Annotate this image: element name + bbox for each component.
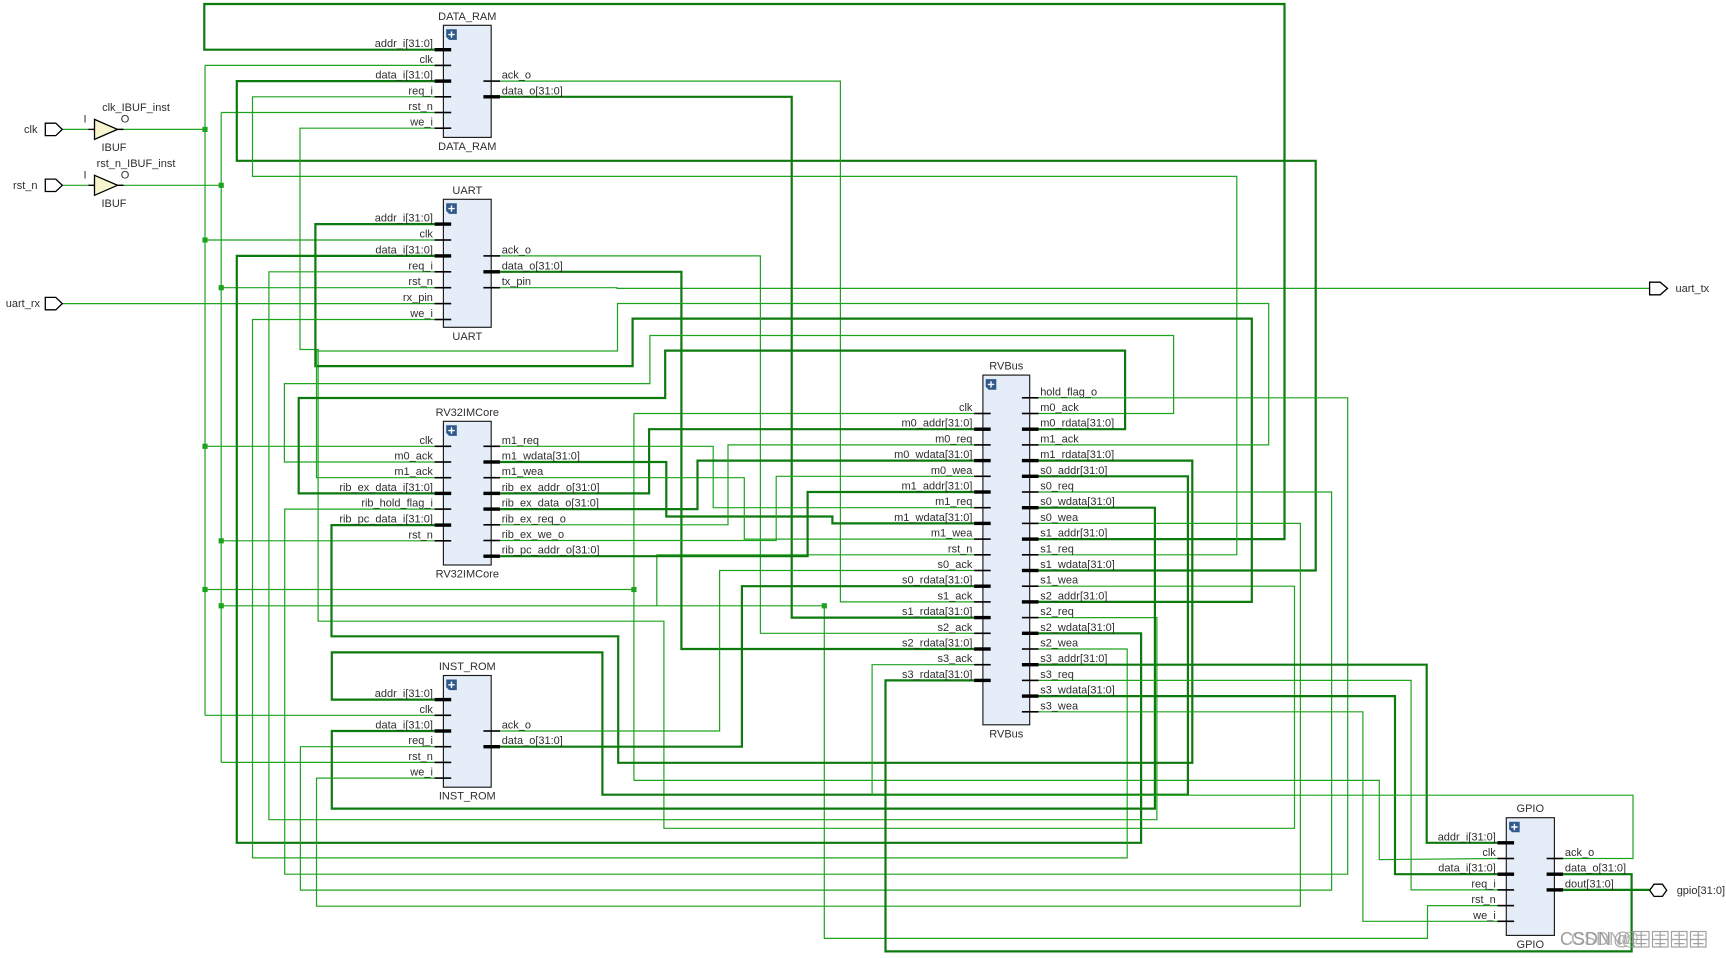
svg-text:rib_ex_addr_o[31:0]: rib_ex_addr_o[31:0] (502, 482, 600, 494)
pin RVBus.m0_wdata[31:0] (974, 459, 991, 462)
pin INST_ROM.addr_i[31:0] (435, 698, 452, 701)
svg-text:O: O (121, 113, 130, 125)
pin DATA_RAM.addr_i[31:0] (435, 48, 452, 51)
svg-text:tx_pin: tx_pin (502, 276, 531, 288)
pin RVBus.m1_wea (974, 538, 991, 540)
svg-text:rst_n: rst_n (408, 276, 432, 288)
pin RV32IMCore.clk (435, 446, 452, 448)
svg-text:data_o[31:0]: data_o[31:0] (1565, 863, 1626, 875)
svg-text:s2_ack: s2_ack (938, 622, 973, 634)
svg-text:data_o[31:0]: data_o[31:0] (502, 260, 563, 272)
wire net m1_wea (core to RVBus) (500, 478, 974, 539)
watermark CJK glyph strokes (1634, 932, 1707, 948)
junction dot at (633.9,589.5) (631, 587, 636, 592)
svg-text:rst_n: rst_n (408, 751, 432, 763)
wire clk port to IBUF input (62, 128, 89, 130)
pin RV32IMCore.m1_wdata[31:0] (483, 460, 500, 463)
wire net m1_rdata (RVBus to core rib_pc_data_i) (332, 461, 1193, 763)
pin RVBus.s0_ack (974, 570, 991, 572)
pin RVBus.s2_wea (1022, 648, 1039, 650)
wire net m0_ack (RVBus to core) (284, 336, 1173, 463)
pin RVBus.m1_req (974, 507, 991, 509)
pin GPIO.rst_n (1498, 905, 1515, 907)
buffer clk_IBUF_inst (IBUF) (89, 119, 124, 139)
svg-text:s0_ack: s0_ack (938, 559, 973, 571)
svg-text:m0_addr[31:0]: m0_addr[31:0] (901, 418, 972, 430)
svg-text:rib_pc_data_i[31:0]: rib_pc_data_i[31:0] (339, 514, 433, 526)
svg-text:I: I (83, 113, 86, 125)
pin RV32IMCore.rst_n (435, 540, 452, 542)
wire rst_n trunk vertical (220, 113, 222, 763)
wire net s2_addr (UART addr_i) (315, 224, 1251, 602)
pin RV32IMCore.m1_req (483, 446, 500, 448)
wire net s2_wea (UART we_i) (253, 320, 1128, 858)
svg-text:uart_tx: uart_tx (1676, 283, 1710, 295)
svg-text:s1_wdata[31:0]: s1_wdata[31:0] (1040, 559, 1115, 571)
svg-text:s1_ack: s1_ack (938, 590, 973, 602)
module block RVBus (983, 375, 1030, 725)
pin RVBus.m1_rdata[31:0] (1022, 459, 1039, 462)
pin RVBus.clk (974, 413, 991, 415)
svg-text:addr_i[31:0]: addr_i[31:0] (375, 38, 433, 50)
pin DATA_RAM.req_i (435, 96, 452, 98)
svg-text:m1_addr[31:0]: m1_addr[31:0] (901, 481, 972, 493)
svg-text:rst_n: rst_n (408, 529, 432, 541)
pin RVBus.m1_addr[31:0] (974, 490, 991, 493)
pin RVBus.s1_req (1022, 554, 1039, 556)
pin RV32IMCore.rib_ex_addr_o[31:0] (483, 492, 500, 495)
wire net s1_rdata (DATA_RAM data_o) (500, 97, 974, 618)
wire net s0_wea (RVBus to INST_ROM we_i) (317, 523, 1301, 906)
junction dot at (205,129.4) (202, 127, 207, 132)
wire net m1_req (core to RVBus) (500, 446, 974, 507)
svg-text:s3_wdata[31:0]: s3_wdata[31:0] (1040, 685, 1115, 697)
wire net s3_wdata (RVBus to GPIO data_i) (1039, 696, 1498, 874)
pin UART.tx_pin (483, 287, 500, 289)
svg-text:addr_i[31:0]: addr_i[31:0] (375, 688, 433, 700)
svg-text:s1_wea: s1_wea (1040, 575, 1079, 587)
wire clk branch rail (205, 589, 634, 591)
wire net m1_addr (core rib_pc_addr_o to RVBus) (500, 492, 974, 556)
wire GPIO dout to gpio port (1563, 889, 1650, 891)
wire net s3_req (RVBus to GPIO req_i) (1039, 680, 1498, 890)
pin RVBus.s0_wdata[31:0] (1022, 506, 1039, 509)
svg-text:s3_rdata[31:0]: s3_rdata[31:0] (902, 669, 972, 681)
pin UART.we_i (435, 319, 452, 321)
port rst_n (input) (45, 179, 62, 191)
pin UART.req_i (435, 271, 452, 273)
svg-text:clk: clk (419, 54, 433, 66)
svg-text:we_i: we_i (409, 117, 433, 129)
pin RV32IMCore.rib_ex_data_o[31:0] (483, 507, 500, 510)
wire rst_n riser to RVBus.rst_n (657, 555, 974, 606)
svg-text:s1_req: s1_req (1040, 543, 1074, 555)
svg-text:rx_pin: rx_pin (403, 292, 433, 304)
svg-text:IBUF: IBUF (101, 198, 126, 210)
pin DATA_RAM.ack_o (483, 80, 500, 82)
wire net s1_req (DATA_RAM req_i) (253, 97, 1237, 555)
svg-text:m0_ack: m0_ack (394, 451, 433, 463)
pin INST_ROM.we_i (435, 777, 452, 779)
svg-text:s3_wea: s3_wea (1040, 700, 1079, 712)
svg-text:m1_wea: m1_wea (931, 528, 973, 540)
wire rst_n IBUF output to trunk (118, 184, 222, 186)
wire net s1_wdata (DATA_RAM data_i) (237, 81, 1316, 570)
wire clk to RV32IMCore.clk (205, 445, 435, 447)
svg-text:RV32IMCore: RV32IMCore (436, 569, 499, 581)
wire net m0_req (core rib_ex_req_o to RVBus) (500, 445, 974, 525)
wire net s0_addr (RVBus to INST_ROM addr_i) (332, 476, 1188, 794)
svg-text:clk: clk (1482, 847, 1496, 859)
wire clk to RVBus.clk (634, 413, 974, 415)
svg-text:rst_n: rst_n (408, 101, 432, 113)
pin RV32IMCore.rib_ex_data_i[31:0] (435, 492, 452, 495)
module block DATA_RAM (443, 25, 491, 137)
svg-text:O: O (121, 169, 130, 181)
svg-text:m1_ack: m1_ack (394, 466, 433, 478)
svg-text:s0_rdata[31:0]: s0_rdata[31:0] (902, 575, 972, 587)
pin INST_ROM.clk (435, 715, 452, 717)
pin RVBus.m0_req (974, 444, 991, 446)
svg-text:m0_rdata[31:0]: m0_rdata[31:0] (1040, 418, 1114, 430)
svg-text:addr_i[31:0]: addr_i[31:0] (1438, 831, 1496, 843)
pin INST_ROM.data_i[31:0] (435, 729, 452, 732)
pin RV32IMCore.m1_ack (435, 477, 452, 479)
wire rst_n branch rail (221, 605, 824, 607)
svg-text:ack_o: ack_o (1565, 847, 1594, 859)
pin RVBus.s3_req (1022, 680, 1039, 682)
wire net s0_wdata (RVBus to INST_ROM data_i) (332, 508, 1155, 809)
pin RVBus.s0_rdata[31:0] (974, 585, 991, 588)
pin DATA_RAM.clk (435, 65, 452, 67)
svg-text:gpio[31:0]: gpio[31:0] (1677, 885, 1725, 897)
svg-text:INST_ROM: INST_ROM (439, 661, 496, 673)
svg-text:rib_ex_we_o: rib_ex_we_o (502, 529, 564, 541)
pin RVBus.s2_rdata[31:0] (974, 647, 991, 650)
pin INST_ROM.data_o[31:0] (483, 745, 500, 748)
pin RV32IMCore.rib_ex_req_o (483, 524, 500, 526)
svg-text:rib_ex_data_o[31:0]: rib_ex_data_o[31:0] (502, 498, 599, 510)
pin RVBus.rst_n (974, 554, 991, 556)
pin RVBus.m1_ack (1022, 444, 1039, 446)
svg-text:m1_req: m1_req (502, 435, 539, 447)
wire net s3_addr (RVBus to GPIO addr_i) (1039, 665, 1498, 843)
svg-text:DATA_RAM: DATA_RAM (438, 141, 496, 153)
port gpio[31:0] (inout) (1650, 884, 1667, 896)
svg-text:s2_wea: s2_wea (1040, 638, 1079, 650)
pin RVBus.s3_wea (1022, 711, 1039, 713)
svg-text:s2_req: s2_req (1040, 606, 1074, 618)
svg-text:we_i: we_i (409, 767, 433, 779)
svg-text:m1_wdata[31:0]: m1_wdata[31:0] (894, 512, 972, 524)
svg-text:data_i[31:0]: data_i[31:0] (1438, 863, 1496, 875)
wire rst_n to INST_ROM.rst_n (221, 761, 434, 763)
wire rst_n to UART.rst_n (221, 287, 434, 289)
wire net s2_wdata (UART data_i) (237, 256, 1141, 843)
svg-text:we_i: we_i (1472, 910, 1496, 922)
wire net m1_wdata (core to RVBus) (500, 462, 974, 523)
svg-text:m0_req: m0_req (935, 433, 972, 445)
wire net s0_rdata (INST_ROM data_o to RVBus) (500, 586, 974, 747)
pin UART.rst_n (435, 287, 452, 289)
wire rst_n port to IBUF input (62, 184, 89, 186)
svg-text:clk: clk (419, 704, 433, 716)
wire net s0_req (RVBus to INST_ROM req_i) (300, 492, 1331, 890)
svg-text:UART: UART (452, 185, 482, 197)
pin RVBus.hold_flag_o (1022, 397, 1039, 399)
wire net s3_wea (RVBus to GPIO we_i) (1039, 712, 1498, 922)
svg-text:uart_rx: uart_rx (6, 298, 41, 310)
buffer rst_n_IBUF_inst (IBUF) (89, 175, 124, 195)
svg-text:rib_pc_addr_o[31:0]: rib_pc_addr_o[31:0] (502, 545, 600, 557)
wire net s3_ack (GPIO ack_o to RVBus) (872, 665, 1633, 859)
wire net s2_req (UART req_i) (269, 272, 1157, 820)
svg-text:GPIO: GPIO (1517, 803, 1545, 815)
pin RVBus.s0_wea (1022, 523, 1039, 525)
svg-text:req_i: req_i (408, 260, 432, 272)
wire clk to UART.clk (205, 239, 435, 241)
svg-text:s2_wdata[31:0]: s2_wdata[31:0] (1040, 622, 1115, 634)
module block RV32IMCore (443, 421, 491, 565)
svg-text:I: I (83, 169, 86, 181)
svg-text:GPIO: GPIO (1517, 939, 1545, 951)
pin GPIO.dout[31:0] (1547, 888, 1564, 891)
port uart_rx (input) (45, 297, 62, 309)
svg-text:rib_ex_data_i[31:0]: rib_ex_data_i[31:0] (339, 482, 433, 494)
svg-text:addr_i[31:0]: addr_i[31:0] (375, 213, 433, 225)
svg-text:data_i[31:0]: data_i[31:0] (375, 720, 433, 732)
svg-text:RVBus: RVBus (989, 361, 1024, 373)
wire net m0_addr (core rib_ex_addr_o to RVBus) (500, 429, 974, 493)
pin RV32IMCore.rib_pc_addr_o[31:0] (483, 555, 500, 558)
svg-text:hold_flag_o: hold_flag_o (1040, 386, 1097, 398)
svg-text:s3_req: s3_req (1040, 669, 1074, 681)
pin INST_ROM.rst_n (435, 762, 452, 764)
wire clk IBUF output to trunk (118, 128, 206, 130)
pin RVBus.s2_addr[31:0] (1022, 600, 1039, 603)
wire clk to DATA_RAM.clk (205, 64, 435, 66)
junction dot at (221.2,540.8) (219, 538, 224, 543)
svg-text:req_i: req_i (408, 735, 432, 747)
svg-text:data_o[31:0]: data_o[31:0] (502, 735, 563, 747)
wire rst_n to DATA_RAM.rst_n (221, 112, 434, 114)
pin RVBus.s0_addr[31:0] (1022, 475, 1039, 478)
svg-text:m1_wea: m1_wea (502, 466, 544, 478)
pin RVBus.m1_wdata[31:0] (974, 522, 991, 525)
svg-text:m1_req: m1_req (935, 496, 972, 508)
pin GPIO.addr_i[31:0] (1498, 841, 1515, 844)
junction dot at (221.2,287.7) (219, 285, 224, 290)
pin UART.addr_i[31:0] (435, 222, 452, 225)
pin RVBus.s2_ack (974, 633, 991, 635)
junction dot at (205,240.0) (202, 237, 207, 242)
svg-text:m1_ack: m1_ack (1040, 433, 1079, 445)
wire net m0_wea (core rib_ex_we_o to RVBus) (500, 476, 974, 540)
svg-text:rib_ex_req_o: rib_ex_req_o (502, 513, 566, 525)
svg-text:clk_IBUF_inst: clk_IBUF_inst (102, 102, 170, 114)
pin GPIO.we_i (1498, 921, 1515, 923)
pin RVBus.m0_rdata[31:0] (1022, 428, 1039, 431)
wire net s0_ack (INST_ROM ack_o to RVBus) (500, 571, 974, 732)
pin RVBus.s1_addr[31:0] (1022, 537, 1039, 540)
pin RVBus.s1_rdata[31:0] (974, 616, 991, 619)
svg-text:rst_n: rst_n (948, 543, 972, 555)
svg-text:s0_req: s0_req (1040, 481, 1074, 493)
svg-text:s3_ack: s3_ack (938, 653, 973, 665)
wire net s2_ack (UART ack_o) (500, 256, 974, 633)
svg-text:s1_addr[31:0]: s1_addr[31:0] (1040, 528, 1107, 540)
wire rst_n drop to GPIO (824, 606, 1497, 939)
wire net s3_rdata (GPIO data_o to RVBus) (886, 680, 1632, 951)
svg-text:clk: clk (959, 402, 973, 414)
svg-text:data_i[31:0]: data_i[31:0] (375, 70, 433, 82)
pin DATA_RAM.rst_n (435, 112, 452, 114)
wire clk column to RVBus and GPIO (633, 414, 635, 781)
svg-text:DATA_RAM: DATA_RAM (438, 11, 496, 23)
svg-text:s0_wea: s0_wea (1040, 512, 1079, 524)
pin RVBus.m0_addr[31:0] (974, 428, 991, 431)
wire UART.tx_pin to uart_tx port (500, 287, 1650, 290)
pin RVBus.s0_req (1022, 491, 1039, 493)
svg-text:s1_rdata[31:0]: s1_rdata[31:0] (902, 606, 972, 618)
svg-text:RVBus: RVBus (989, 728, 1024, 740)
svg-text:req_i: req_i (1471, 878, 1495, 890)
junction dot at (205,446.3) (202, 444, 207, 449)
module block GPIO (1506, 818, 1554, 936)
wire uart_rx port to UART.rx_pin (62, 303, 434, 305)
pin GPIO.data_i[31:0] (1498, 873, 1515, 876)
port clk (input) (45, 123, 62, 135)
watermark CSDN (1560, 929, 1639, 949)
pin GPIO.clk (1498, 858, 1515, 860)
pin UART.clk (435, 239, 452, 241)
wire net m0_wdata (core rib_ex_data_o to RVBus) (500, 461, 974, 510)
pin RVBus.s1_wdata[31:0] (1022, 569, 1039, 572)
pin RVBus.s3_ack (974, 664, 991, 666)
pin RV32IMCore.rib_pc_data_i[31:0] (435, 523, 452, 526)
svg-text:IBUF: IBUF (101, 142, 126, 154)
wire clk lower rail to GPIO.clk (634, 780, 1498, 859)
pin DATA_RAM.we_i (435, 127, 452, 129)
wire net s1_wea (DATA_RAM we_i) (300, 128, 1295, 828)
wire clk to INST_ROM.clk (205, 714, 435, 716)
pin RV32IMCore.m0_ack (435, 461, 452, 463)
wire rst_n to RV32IMCore.rst_n (221, 540, 434, 542)
svg-text:req_i: req_i (408, 85, 432, 97)
pin UART.data_i[31:0] (435, 254, 452, 257)
svg-text:rib_hold_flag_i: rib_hold_flag_i (361, 498, 433, 510)
pin DATA_RAM.data_i[31:0] (435, 79, 452, 82)
pin GPIO.data_o[31:0] (1547, 873, 1564, 876)
svg-text:s0_wdata[31:0]: s0_wdata[31:0] (1040, 496, 1115, 508)
svg-text:s3_addr[31:0]: s3_addr[31:0] (1040, 653, 1107, 665)
svg-text:INST_ROM: INST_ROM (439, 791, 496, 803)
wire clk trunk vertical (204, 65, 206, 715)
wire net s1_ack (DATA_RAM ack_o) (500, 81, 974, 602)
port uart_tx (output) (1650, 282, 1668, 295)
pin GPIO.ack_o (1547, 858, 1564, 860)
pin RVBus.m0_wea (974, 476, 991, 478)
pin UART.ack_o (483, 255, 500, 257)
wire net hold_flag (RVBus to core rib_hold_flag_i) (285, 398, 1348, 874)
wire net m0_rdata (RVBus to core rib_ex_data_i) (299, 351, 1125, 494)
pin UART.data_o[31:0] (483, 270, 500, 273)
svg-text:m1_rdata[31:0]: m1_rdata[31:0] (1040, 449, 1114, 461)
svg-text:m0_ack: m0_ack (1040, 402, 1079, 414)
svg-text:we_i: we_i (409, 308, 433, 320)
wire net s1_addr (DATA_RAM addr_i) (204, 4, 1284, 539)
module block INST_ROM (443, 676, 491, 788)
pin RVBus.s3_addr[31:0] (1022, 663, 1039, 666)
pin RVBus.s2_wdata[31:0] (1022, 632, 1039, 635)
svg-text:rst_n: rst_n (13, 180, 37, 192)
svg-text:rst_n: rst_n (1471, 894, 1495, 906)
pin DATA_RAM.data_o[31:0] (483, 95, 500, 98)
junction dot at (824.3,605.8) (822, 603, 827, 608)
pin UART.rx_pin (435, 303, 452, 305)
pin RV32IMCore.m1_wea (483, 477, 500, 479)
wire net s2_rdata (UART data_o) (500, 272, 974, 649)
svg-text:s2_addr[31:0]: s2_addr[31:0] (1040, 590, 1107, 602)
svg-text:s2_rdata[31:0]: s2_rdata[31:0] (902, 638, 972, 650)
svg-text:clk: clk (24, 124, 38, 136)
pin RV32IMCore.rib_ex_we_o (483, 540, 500, 542)
svg-text:RV32IMCore: RV32IMCore (436, 407, 499, 419)
svg-text:ack_o: ack_o (502, 244, 531, 256)
pin INST_ROM.req_i (435, 746, 452, 748)
svg-text:clk: clk (419, 229, 433, 241)
junction dot at (205,589.5) (202, 587, 207, 592)
svg-text:s0_addr[31:0]: s0_addr[31:0] (1040, 465, 1107, 477)
svg-text:data_i[31:0]: data_i[31:0] (375, 244, 433, 256)
svg-text:ack_o: ack_o (502, 720, 531, 732)
pin RVBus.s3_wdata[31:0] (1022, 694, 1039, 697)
junction dot at (221.2,605.8) (219, 603, 224, 608)
svg-text:rst_n_IBUF_inst: rst_n_IBUF_inst (97, 158, 176, 170)
pin RVBus.s3_rdata[31:0] (974, 679, 991, 682)
svg-text:data_o[31:0]: data_o[31:0] (502, 85, 563, 97)
pin RVBus.m0_ack (1022, 413, 1039, 415)
pin RVBus.s1_wea (1022, 585, 1039, 587)
wire net m1_ack (RVBus to core) (317, 304, 1269, 478)
module block UART (443, 199, 491, 327)
svg-text:m0_wdata[31:0]: m0_wdata[31:0] (894, 449, 972, 461)
pin RV32IMCore.rib_hold_flag_i (435, 508, 452, 510)
svg-text:m1_wdata[31:0]: m1_wdata[31:0] (502, 451, 580, 463)
pin INST_ROM.ack_o (483, 730, 500, 732)
pin RVBus.s1_ack (974, 601, 991, 603)
svg-text:m0_wea: m0_wea (931, 465, 973, 477)
pin GPIO.req_i (1498, 889, 1515, 891)
svg-text:ack_o: ack_o (502, 70, 531, 82)
pin RVBus.s2_req (1022, 617, 1039, 619)
svg-text:dout[31:0]: dout[31:0] (1565, 878, 1614, 890)
svg-text:clk: clk (419, 435, 433, 447)
junction dot at (221.2,185.3) (219, 183, 224, 188)
svg-text:UART: UART (452, 331, 482, 343)
